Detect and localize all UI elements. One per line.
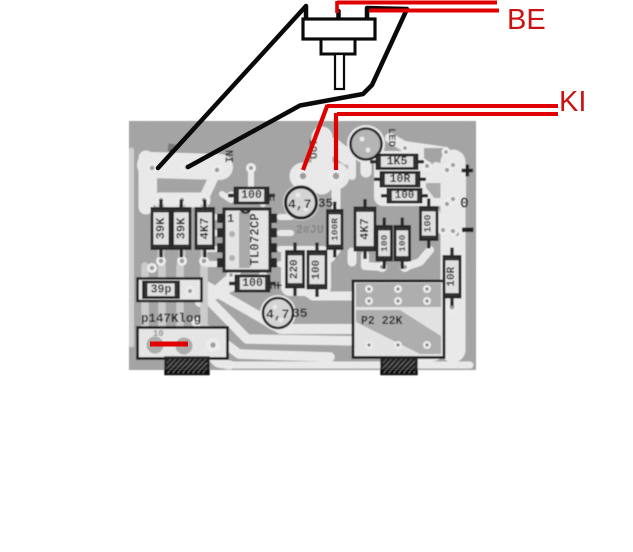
svg-text:KI: KI: [559, 86, 586, 118]
svg-text:BE: BE: [507, 4, 546, 36]
